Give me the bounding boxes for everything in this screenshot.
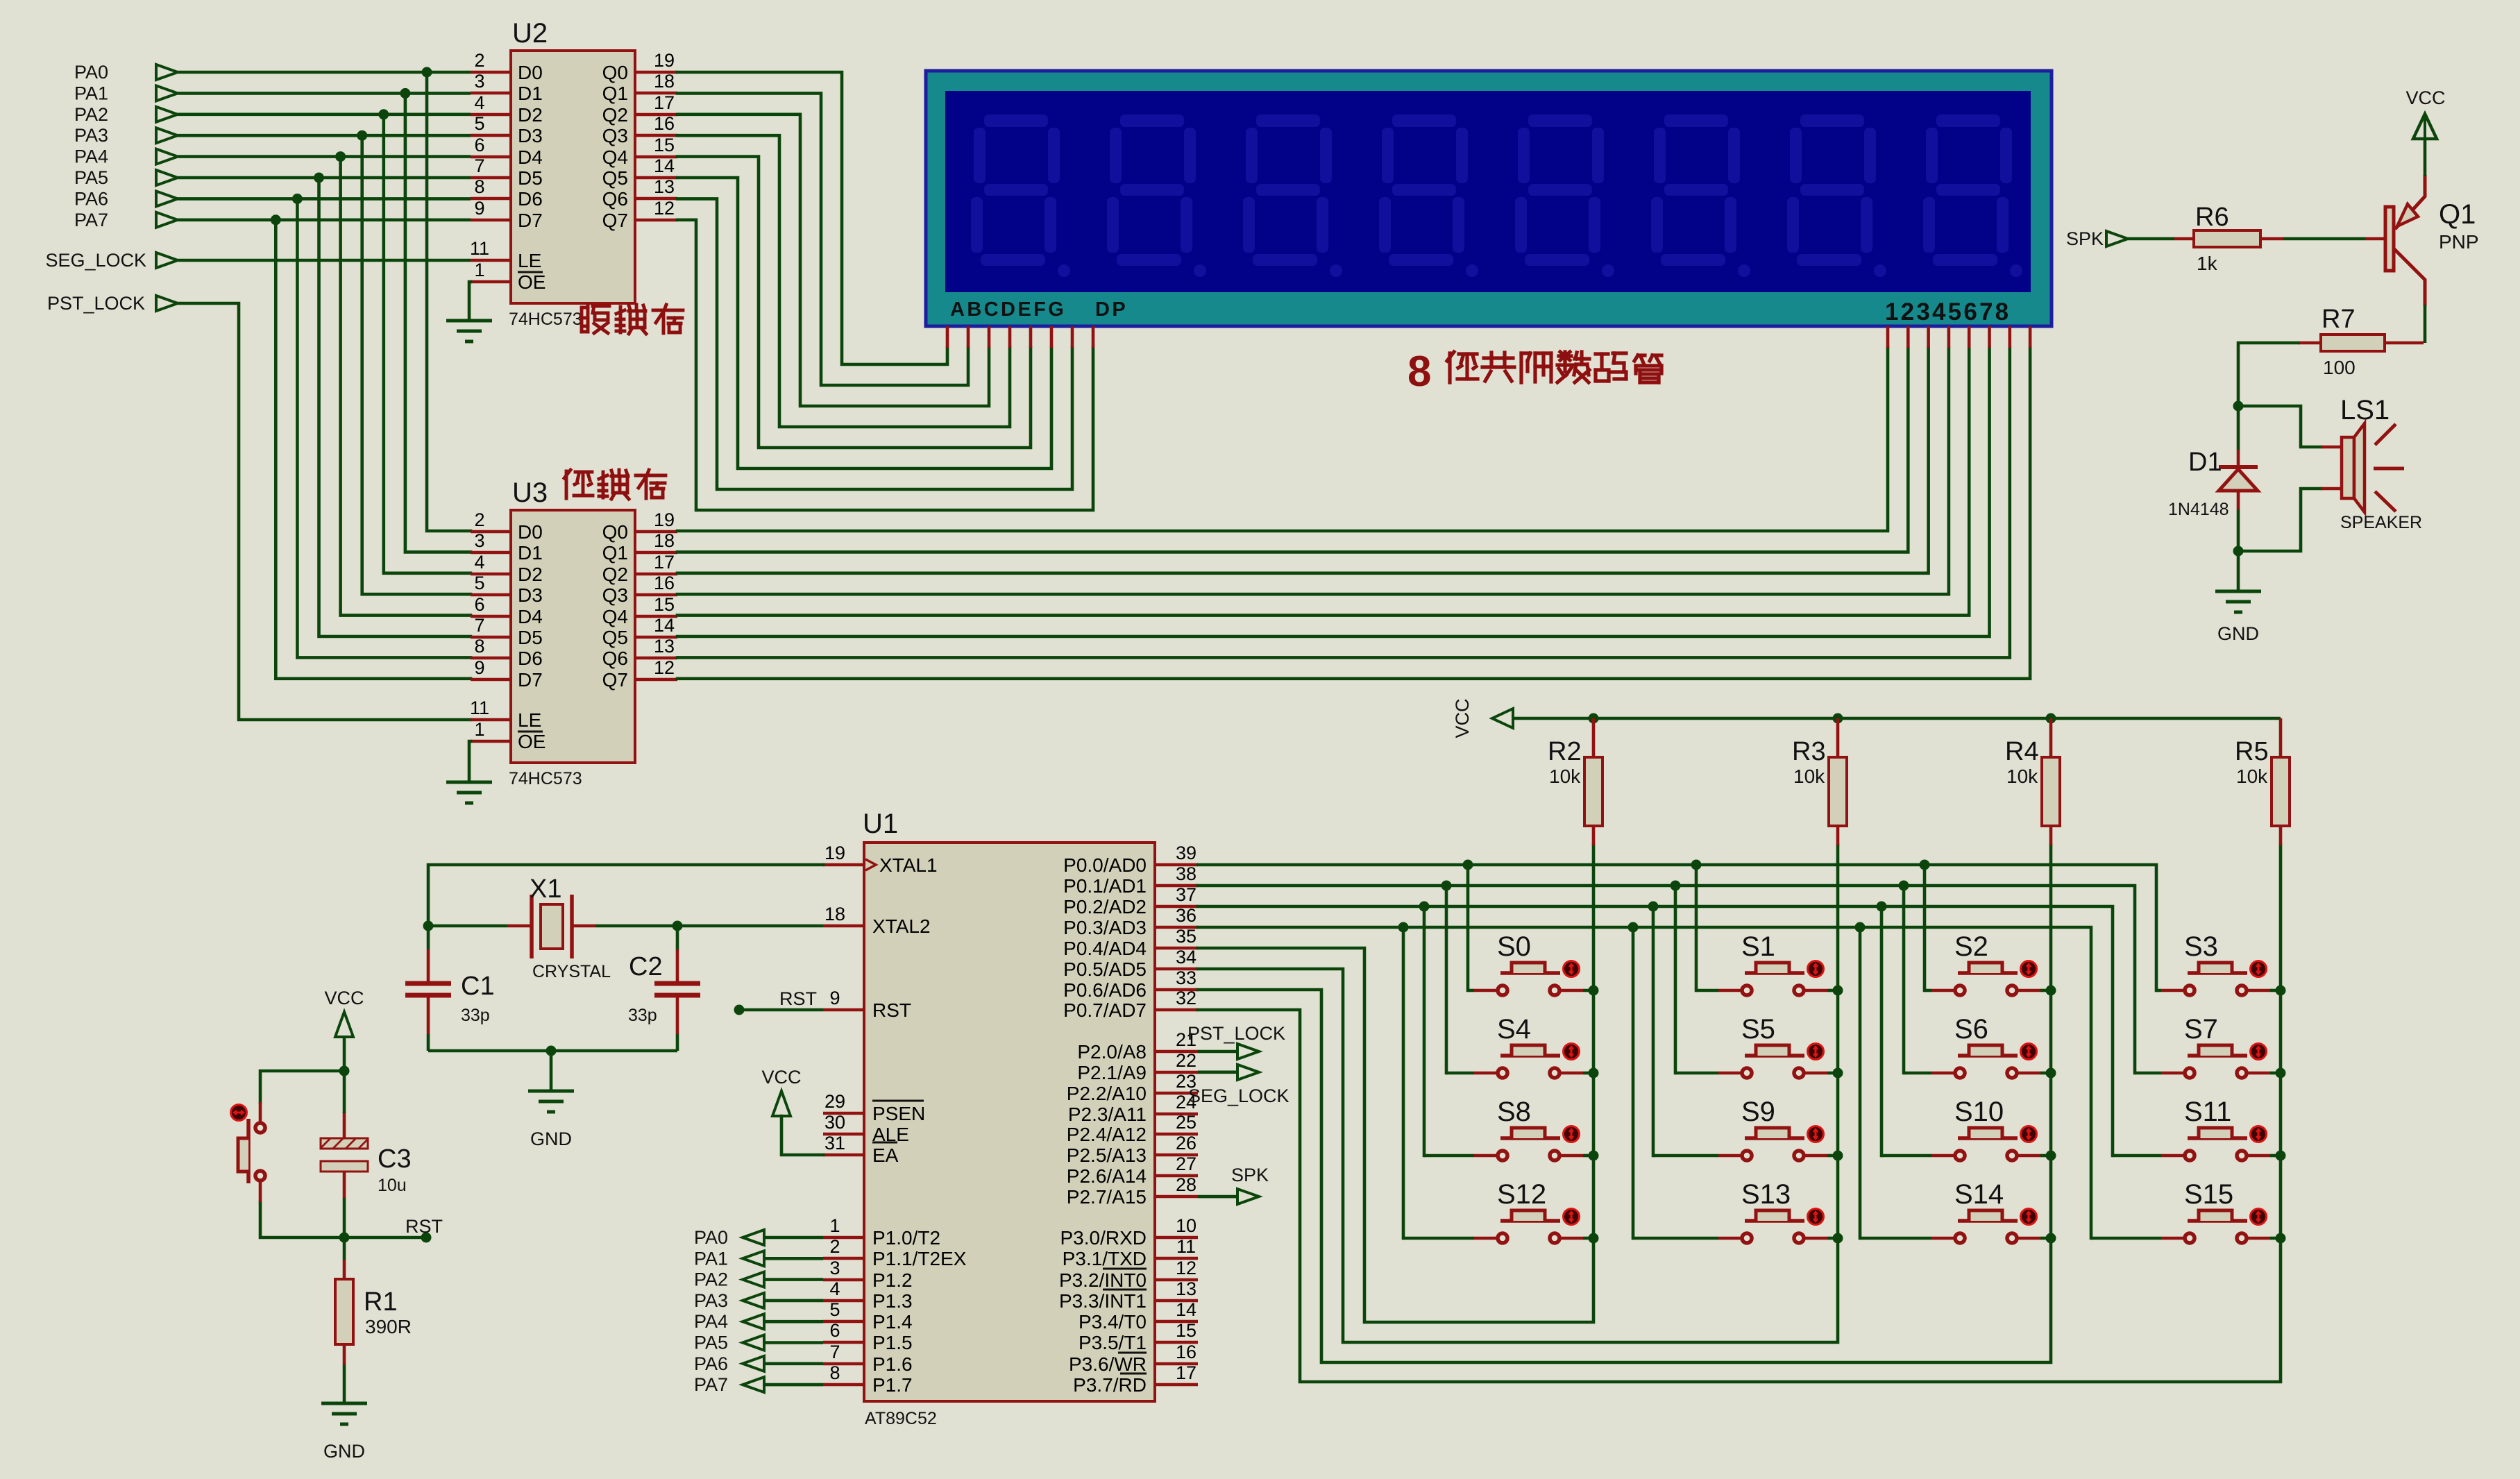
U1 right pins xyxy=(1155,865,1198,1385)
wire SPK to R6 xyxy=(2128,237,2174,241)
junction cap ground xyxy=(546,1046,557,1056)
svg-text:P2.0/A8: P2.0/A8 xyxy=(1077,1041,1147,1063)
svg-text:P3.2/INT0: P3.2/INT0 xyxy=(1059,1269,1147,1291)
R1 bottom stub xyxy=(343,1344,346,1364)
junction row 0 column 2 xyxy=(1920,860,1930,870)
svg-text:Q1: Q1 xyxy=(602,542,628,564)
wire U3 Q3 to display digit 4 xyxy=(677,348,1949,594)
wire S10 right link xyxy=(2040,1154,2051,1158)
latch U2 pin numbers xyxy=(470,50,675,280)
wire row 3 tap column 1 xyxy=(1632,927,1635,1238)
junction row 2 column 0 xyxy=(1419,902,1430,912)
svg-text:D2: D2 xyxy=(518,104,543,126)
svg-text:P1.7: P1.7 xyxy=(872,1374,913,1396)
svg-text:P1.1/T2EX: P1.1/T2EX xyxy=(872,1248,967,1269)
svg-text:Q1: Q1 xyxy=(602,83,628,104)
svg-text:R6: R6 xyxy=(2195,203,2229,232)
node PA6 input terminal xyxy=(74,188,178,209)
node SPK input terminal xyxy=(2066,228,2128,249)
wire P0.0 keypad row 0 xyxy=(1198,865,2156,990)
svg-text:390R: 390R xyxy=(365,1316,412,1337)
svg-text:15: 15 xyxy=(654,135,675,155)
push button S12 xyxy=(1474,1209,1583,1244)
svg-text:6: 6 xyxy=(474,135,484,155)
wire PA3 to U1 xyxy=(764,1299,823,1303)
R6 right stub xyxy=(2260,237,2283,241)
svg-text:PA6: PA6 xyxy=(694,1353,728,1374)
wire U2 OE to ground xyxy=(469,282,471,321)
wire U3 Q0 to display digit 1 xyxy=(677,348,1888,531)
wire XTAL2 net xyxy=(595,924,823,928)
wire P2.7 to SPK arrow xyxy=(1198,1195,1237,1199)
svg-text:4: 4 xyxy=(829,1278,840,1299)
junction PA1 xyxy=(400,88,410,99)
wire row 1 tap column 0 xyxy=(1445,886,1448,1073)
crystal X1 right stub xyxy=(573,924,595,928)
wire PA5 drop to U3 D5 xyxy=(319,178,471,636)
wire U3 Q6 to display digit 7 xyxy=(677,348,2010,657)
node PA5 input terminal xyxy=(74,167,178,188)
junction row 2 column 1 xyxy=(1648,902,1659,912)
svg-text:P0.0/AD0: P0.0/AD0 xyxy=(1063,854,1147,876)
svg-text:2: 2 xyxy=(474,509,484,530)
svg-text:3: 3 xyxy=(474,530,484,551)
wire S14 left link xyxy=(1860,1237,1931,1240)
wire U2 Q6 to display segment G xyxy=(677,198,1072,489)
wire U2 Q1 to display segment B xyxy=(677,93,968,385)
svg-text:P2.5/A13: P2.5/A13 xyxy=(1067,1144,1147,1166)
wire reset button top xyxy=(260,1071,344,1102)
push button S10 xyxy=(1931,1126,2040,1161)
wire R2 bottom stub xyxy=(1592,826,1596,845)
junction S2 column xyxy=(2046,986,2056,996)
wire row 0 tap column 2 xyxy=(1923,865,1927,990)
wire U3 Q5 to display digit 6 xyxy=(677,348,1990,636)
svg-text:38: 38 xyxy=(1176,863,1196,884)
resistor R2 body xyxy=(1584,757,1603,826)
junction row 2 column 2 xyxy=(1877,902,1887,912)
svg-text:P2.1/A9: P2.1/A9 xyxy=(1077,1062,1147,1083)
wire VCC to R3 xyxy=(1836,718,1840,757)
svg-text:19: 19 xyxy=(654,509,675,530)
wire U3 Q4 to display digit 5 xyxy=(677,348,1969,616)
svg-text:P1.4: P1.4 xyxy=(872,1311,913,1333)
junction S13 column xyxy=(1833,1233,1843,1244)
wire row 0 tap column 1 xyxy=(1695,865,1698,990)
speaker LS1 xyxy=(2342,423,2404,512)
wire S11 right link xyxy=(2270,1154,2281,1158)
svg-text:OE: OE xyxy=(518,731,546,752)
wire S1 left link xyxy=(1696,989,1718,992)
wire RST node to terminal xyxy=(344,1236,426,1240)
latch U3 left pins D0-D7 xyxy=(471,532,677,741)
svg-text:SEG_LOCK: SEG_LOCK xyxy=(1188,1085,1289,1106)
push button S6 xyxy=(1931,1044,2040,1079)
svg-text:Q7: Q7 xyxy=(602,669,628,691)
junction S3 column xyxy=(2276,986,2286,996)
svg-text:C1: C1 xyxy=(461,972,495,1001)
svg-text:D6: D6 xyxy=(518,188,543,210)
wire PA2 to U1 xyxy=(764,1278,823,1281)
wire S5 right link xyxy=(1827,1072,1838,1075)
svg-text:5: 5 xyxy=(829,1299,840,1320)
U1 pin numbers xyxy=(825,843,1196,1383)
junction PA0 xyxy=(422,67,432,78)
svg-text:11: 11 xyxy=(470,238,489,259)
node PST_LOCK input terminal xyxy=(47,293,178,314)
svg-text:S15: S15 xyxy=(2184,1179,2233,1210)
svg-text:Q6: Q6 xyxy=(602,188,628,210)
wire row 2 tap column 0 xyxy=(1423,906,1426,1156)
svg-text:8: 8 xyxy=(1407,348,1431,396)
svg-text:PA0: PA0 xyxy=(694,1227,728,1248)
wire C1 top xyxy=(427,926,430,949)
svg-text:7: 7 xyxy=(829,1342,840,1362)
svg-text:13: 13 xyxy=(654,176,675,197)
display segment labels ABCDEFG DP xyxy=(950,298,1128,321)
junction S9 column xyxy=(1833,1151,1843,1161)
latch U2 74HC573 body xyxy=(511,51,635,303)
svg-text:P1.0/T2: P1.0/T2 xyxy=(872,1227,940,1249)
node RST terminal left xyxy=(405,1216,443,1243)
svg-text:P1.2: P1.2 xyxy=(872,1269,913,1291)
svg-text:8: 8 xyxy=(474,176,484,197)
svg-text:S12: S12 xyxy=(1497,1179,1546,1210)
svg-text:U3: U3 xyxy=(512,477,548,508)
svg-text:8: 8 xyxy=(829,1362,840,1383)
push button S9 xyxy=(1718,1126,1827,1161)
node PA3 input terminal xyxy=(74,125,178,146)
wire R1 to ground xyxy=(343,1364,346,1403)
wire PA2 drop to U3 D2 xyxy=(384,115,471,573)
junction PA5 xyxy=(314,173,324,183)
svg-text:D0: D0 xyxy=(518,521,543,543)
svg-text:11: 11 xyxy=(1176,1236,1196,1257)
wire S13 left link xyxy=(1633,1237,1718,1240)
svg-text:36: 36 xyxy=(1176,905,1196,926)
capacitor C3 electrolytic xyxy=(321,1138,368,1172)
node PA4 input terminal xyxy=(74,146,178,167)
svg-text:5: 5 xyxy=(474,113,484,134)
svg-text:P3.6/WR: P3.6/WR xyxy=(1069,1353,1147,1375)
junction PA2 xyxy=(378,109,389,119)
latch U2 pin names xyxy=(518,62,628,293)
svg-text:SPK: SPK xyxy=(1231,1165,1269,1185)
wire S7 right link xyxy=(2270,1072,2281,1075)
svg-text:1N4148: 1N4148 xyxy=(2168,500,2229,519)
svg-text:OE: OE xyxy=(518,271,546,293)
wire row 3 tap column 0 xyxy=(1402,927,1405,1238)
svg-text:D3: D3 xyxy=(518,584,543,606)
wire RST to U1 xyxy=(739,1008,823,1012)
U1 pin name overlines xyxy=(872,1101,1147,1374)
svg-text:Q7: Q7 xyxy=(602,210,628,231)
svg-text:S6: S6 xyxy=(1954,1014,1988,1045)
svg-text:17: 17 xyxy=(654,552,675,573)
wire RST node to R1 xyxy=(343,1237,346,1260)
node SEG_LOCK input terminal xyxy=(45,250,178,271)
svg-text:Q6: Q6 xyxy=(602,648,628,669)
svg-text:7: 7 xyxy=(474,155,484,176)
wire crystal left xyxy=(428,924,507,928)
svg-text:CRYSTAL: CRYSTAL xyxy=(532,962,611,981)
junction VCC rail R2 xyxy=(1589,713,1599,724)
wire PA5 horizontal xyxy=(178,176,471,180)
svg-text:10k: 10k xyxy=(2006,766,2038,787)
svg-text:6: 6 xyxy=(829,1320,840,1341)
svg-text:34: 34 xyxy=(1176,947,1196,967)
svg-text:ABCDEFG: ABCDEFG xyxy=(950,298,1066,321)
svg-text:18: 18 xyxy=(654,71,675,92)
svg-text:P0.6/AD6: P0.6/AD6 xyxy=(1063,979,1147,1001)
wire R6 to Q1 base xyxy=(2283,237,2365,241)
wire P0.6 to keypad column 2 xyxy=(1198,845,2051,1362)
wire P0.2 keypad row 2 xyxy=(1198,906,2113,1156)
resistor R7 body xyxy=(2321,335,2385,351)
svg-text:P3.3/INT1: P3.3/INT1 xyxy=(1059,1290,1147,1312)
wire row 3 tap column 2 xyxy=(1859,927,1862,1238)
svg-text:1: 1 xyxy=(474,719,484,740)
latch U2 left pins D0-D7 xyxy=(471,72,677,282)
junction crystal left xyxy=(423,921,434,931)
svg-text:P2.7/A15: P2.7/A15 xyxy=(1067,1186,1147,1208)
diode D1 1N4148 xyxy=(2219,450,2258,509)
svg-text:Q0: Q0 xyxy=(602,521,628,543)
wire P0.3 keypad row 3 xyxy=(1198,927,2091,1238)
wire C1 bottom xyxy=(427,1034,430,1051)
junction S6 column xyxy=(2046,1068,2056,1079)
wire S4 left link xyxy=(1446,1072,1474,1075)
push button S5 xyxy=(1718,1044,1827,1079)
C3 top stub xyxy=(343,1112,346,1138)
svg-text:19: 19 xyxy=(654,50,675,71)
display DS1 8-digit 7-segment module body xyxy=(926,71,2052,326)
wire PA7 drop to U3 D7 xyxy=(276,220,471,679)
svg-text:D2: D2 xyxy=(518,564,543,585)
wire S12 left link xyxy=(1403,1237,1474,1240)
svg-text:18: 18 xyxy=(825,904,845,924)
wire PA3 horizontal xyxy=(178,134,471,137)
wire PA1 horizontal xyxy=(178,92,471,95)
svg-text:Q5: Q5 xyxy=(602,167,628,189)
wire VCC to R2 xyxy=(1592,718,1596,757)
wire SEG_LOCK to U2 LE xyxy=(178,259,471,262)
resistor R5 body xyxy=(2272,757,2290,826)
push button RESET (vertical) xyxy=(231,1102,266,1202)
junction S7 column xyxy=(2276,1068,2286,1079)
wire S3 right link xyxy=(2270,989,2281,992)
svg-text:S0: S0 xyxy=(1497,931,1531,962)
svg-text:35: 35 xyxy=(1176,926,1196,947)
node PA2 input terminal xyxy=(74,104,178,125)
svg-text:C3: C3 xyxy=(378,1144,412,1174)
svg-text:R2: R2 xyxy=(1548,737,1582,766)
svg-text:16: 16 xyxy=(654,113,675,134)
svg-text:PA2: PA2 xyxy=(74,104,108,125)
svg-text:PA0: PA0 xyxy=(74,62,108,83)
svg-text:AT89C52: AT89C52 xyxy=(865,1409,937,1428)
push button S3 xyxy=(2161,961,2270,996)
wire VCC to R4 xyxy=(2049,718,2053,757)
svg-text:33p: 33p xyxy=(628,1006,657,1025)
wire PA7 horizontal xyxy=(178,218,471,221)
wire PA1 to U1 xyxy=(764,1257,823,1260)
svg-text:S14: S14 xyxy=(1954,1179,2004,1210)
svg-text:D5: D5 xyxy=(518,167,543,189)
svg-text:RST: RST xyxy=(779,988,817,1009)
svg-text:U2: U2 xyxy=(512,18,548,49)
svg-text:S9: S9 xyxy=(1741,1097,1775,1127)
svg-text:11: 11 xyxy=(470,698,489,718)
svg-text:28: 28 xyxy=(1176,1174,1196,1195)
U1 XTAL1 clock marker xyxy=(865,859,876,870)
svg-text:5: 5 xyxy=(474,573,484,593)
svg-text:19: 19 xyxy=(825,843,845,863)
junction RST node xyxy=(339,1233,350,1243)
wire P0.4 to keypad column 0 xyxy=(1198,845,1593,1322)
svg-text:Q2: Q2 xyxy=(602,564,628,585)
wire U2 Q7 to display segment DP xyxy=(677,220,1093,510)
junction S5 column xyxy=(1833,1068,1843,1079)
node PA4 at U1 P1.4 xyxy=(694,1311,764,1332)
wire U2 Q5 to display segment F xyxy=(677,178,1051,468)
svg-text:PST_LOCK: PST_LOCK xyxy=(47,293,145,314)
svg-text:PA7: PA7 xyxy=(694,1374,728,1395)
wire C2 top xyxy=(676,926,679,949)
svg-text:S8: S8 xyxy=(1497,1097,1531,1127)
svg-text:9: 9 xyxy=(474,198,484,219)
svg-text:P2.2/A10: P2.2/A10 xyxy=(1067,1083,1147,1104)
svg-text:U1: U1 xyxy=(863,809,898,839)
svg-text:P3.5/T1: P3.5/T1 xyxy=(1079,1332,1147,1353)
node PA1 at U1 P1.1 xyxy=(694,1248,764,1269)
svg-text:9: 9 xyxy=(474,657,484,678)
svg-text:13: 13 xyxy=(654,636,675,657)
wire S15 right link xyxy=(2270,1237,2281,1240)
svg-text:13: 13 xyxy=(1176,1278,1196,1299)
U1 pin names xyxy=(872,854,1147,1396)
push button S13 xyxy=(1718,1209,1827,1244)
wire P0.7 to keypad column 3 xyxy=(1198,845,2281,1382)
resistor R6 body xyxy=(2194,230,2260,247)
svg-text:37: 37 xyxy=(1176,884,1196,905)
wire reset button bottom xyxy=(260,1202,344,1237)
svg-text:3: 3 xyxy=(474,71,484,92)
R7 right stub xyxy=(2385,341,2424,345)
wire S8 right link xyxy=(1583,1154,1593,1158)
junction S14 column xyxy=(2046,1233,2056,1244)
R1 top stub xyxy=(343,1260,346,1279)
R7 left stub xyxy=(2298,341,2321,345)
svg-text:PA1: PA1 xyxy=(694,1248,728,1269)
svg-text:D4: D4 xyxy=(518,146,543,168)
wire S15 left link xyxy=(2091,1237,2161,1240)
svg-text:Q3: Q3 xyxy=(602,584,628,606)
wire U3 OE to ground xyxy=(469,741,471,782)
svg-text:25: 25 xyxy=(1176,1112,1196,1133)
junction PA4 xyxy=(335,151,346,162)
wire S5 left link xyxy=(1675,1072,1718,1075)
svg-text:Q3: Q3 xyxy=(602,125,628,146)
svg-text:14: 14 xyxy=(654,615,675,636)
svg-text:8: 8 xyxy=(474,636,484,657)
wire S4 right link xyxy=(1583,1072,1593,1075)
wire PA6 drop to U3 D6 xyxy=(297,198,471,657)
push button S4 xyxy=(1474,1044,1583,1079)
wire Q1 collector down xyxy=(2424,305,2427,343)
svg-text:74HC573: 74HC573 xyxy=(509,769,582,788)
ground under R1 xyxy=(321,1403,367,1424)
svg-text:P3.7/RD: P3.7/RD xyxy=(1073,1374,1147,1396)
svg-text:R1: R1 xyxy=(364,1287,398,1317)
svg-text:Q1: Q1 xyxy=(2439,199,2476,230)
wire C3 to RST node xyxy=(343,1198,346,1237)
push button S2 xyxy=(1931,961,2040,996)
latch U3 pin names xyxy=(518,521,628,752)
svg-text:RST: RST xyxy=(405,1216,443,1237)
svg-text:P3.1/TXD: P3.1/TXD xyxy=(1063,1248,1147,1269)
svg-text:D7: D7 xyxy=(518,669,543,691)
svg-text:17: 17 xyxy=(1176,1362,1196,1383)
node RST at U1 pin 9 xyxy=(734,988,818,1015)
junction S8 column xyxy=(1589,1151,1599,1161)
wire S12 right link xyxy=(1583,1237,1593,1240)
svg-text:PA5: PA5 xyxy=(74,167,108,188)
svg-text:S4: S4 xyxy=(1497,1014,1531,1045)
crystal X1 xyxy=(532,895,572,958)
svg-text:2: 2 xyxy=(829,1236,840,1257)
svg-text:SPEAKER: SPEAKER xyxy=(2340,513,2422,532)
svg-text:D1: D1 xyxy=(2188,448,2222,477)
junction S10 column xyxy=(2046,1151,2056,1161)
annotation text 位锁存 xyxy=(564,470,593,498)
power VCC at EA xyxy=(761,1067,801,1116)
svg-text:S11: S11 xyxy=(2184,1097,2231,1127)
wire PA1 drop to U3 D1 xyxy=(405,93,471,552)
wire D1 bottom xyxy=(2237,509,2240,551)
microcontroller U1 AT89C52 body xyxy=(864,843,1155,1401)
wire PST_LOCK to U3 LE xyxy=(178,303,471,720)
node PA3 at U1 P1.3 xyxy=(694,1290,764,1311)
svg-text:VCC: VCC xyxy=(1452,698,1473,738)
svg-text:D1: D1 xyxy=(518,83,543,104)
svg-text:9: 9 xyxy=(829,988,840,1008)
svg-text:6: 6 xyxy=(474,594,484,615)
svg-text:10: 10 xyxy=(1176,1215,1196,1236)
svg-text:S1: S1 xyxy=(1741,931,1775,962)
wire S3 left link xyxy=(2156,989,2161,992)
wire PA6 to U1 xyxy=(764,1362,823,1366)
ground under U3 xyxy=(446,782,492,803)
svg-text:7: 7 xyxy=(474,615,484,636)
junction D1 top xyxy=(2233,401,2244,412)
svg-text:P3.4/T0: P3.4/T0 xyxy=(1079,1311,1147,1333)
wire VCC to EA xyxy=(781,1116,823,1155)
svg-text:30: 30 xyxy=(825,1112,845,1133)
wire U3 Q7 to display digit 8 xyxy=(677,348,2030,679)
svg-text:RST: RST xyxy=(872,999,911,1021)
junction row 1 column 2 xyxy=(1899,881,1909,891)
crystal X1 left stub xyxy=(507,924,530,928)
node SEG_LOCK at U1 P2.1 xyxy=(1188,1065,1289,1106)
junction S11 column xyxy=(2276,1151,2286,1161)
wire S9 left link xyxy=(1653,1154,1718,1158)
wire S6 right link xyxy=(2040,1072,2051,1075)
svg-text:3: 3 xyxy=(829,1258,840,1278)
svg-text:4: 4 xyxy=(474,92,484,113)
svg-text:PNP: PNP xyxy=(2439,231,2479,253)
node PA6 at U1 P1.6 xyxy=(694,1353,764,1374)
